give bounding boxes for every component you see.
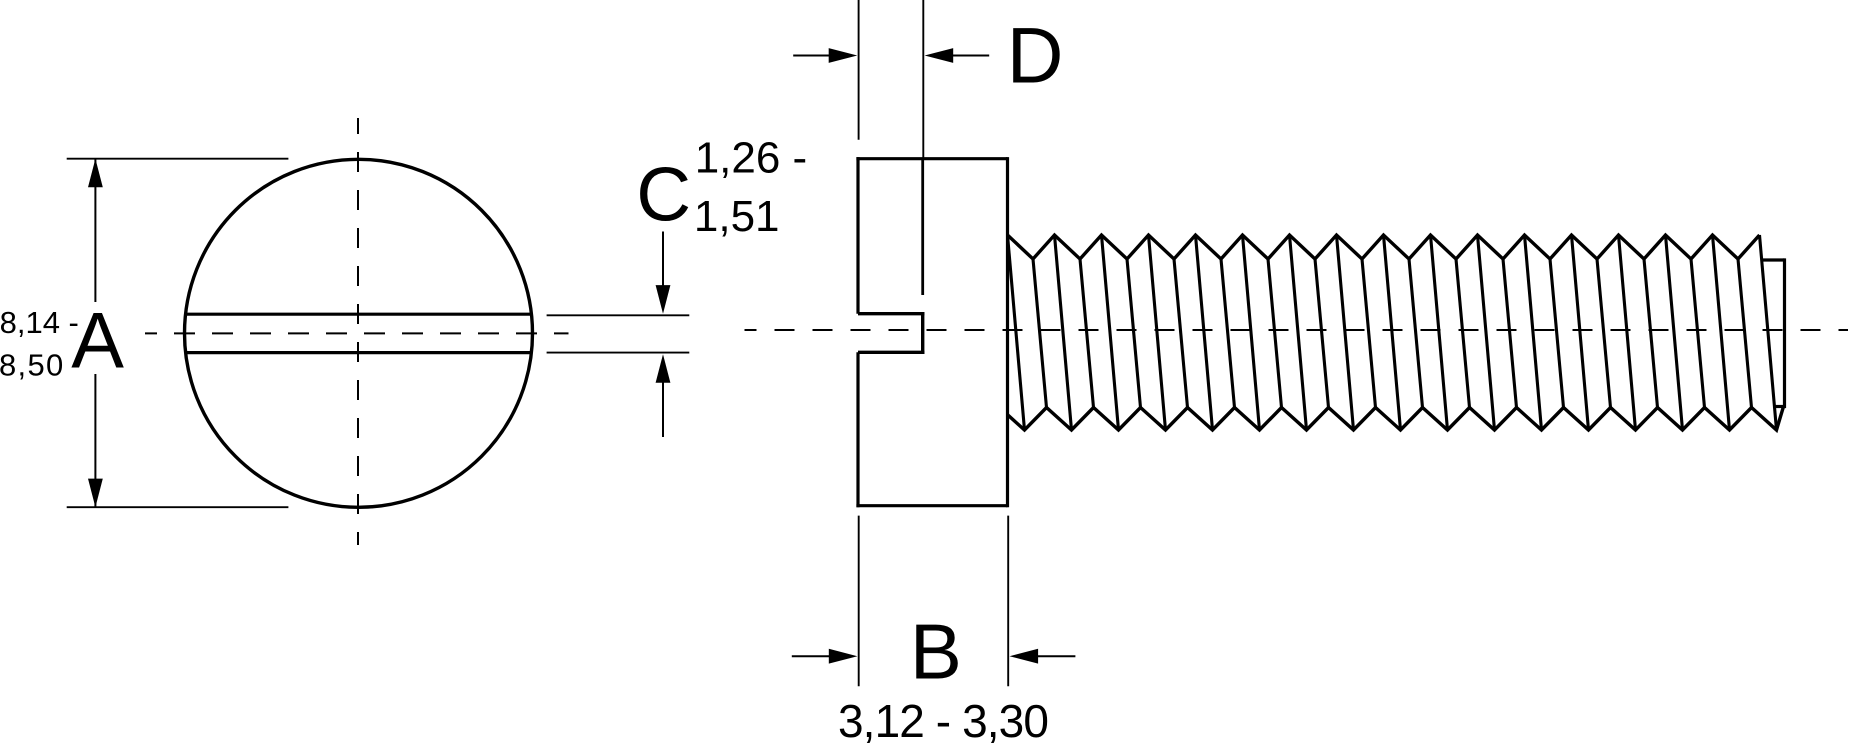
dimension C upper arrowhead pointing down	[656, 285, 671, 314]
dimension A bottom extension line	[67, 506, 289, 508]
shaft horizontal centerline	[745, 329, 1849, 331]
thread flank line from top valley 7	[1315, 259, 1329, 408]
thread flank line from top crest 8	[1337, 235, 1354, 430]
thread flank line from top crest 9	[1384, 235, 1401, 430]
thread flank line from top crest 14	[1619, 235, 1636, 430]
thread crest top profile zigzag	[1008, 235, 1760, 259]
slot lower edge line (front view)	[186, 351, 532, 354]
thread flank line from top crest 6	[1243, 235, 1260, 430]
head front view outline circle	[185, 159, 533, 507]
svg-text:A: A	[71, 296, 124, 385]
dimension B right arrowhead pointing left	[1010, 649, 1039, 664]
dimension D left arrow line	[793, 55, 830, 57]
thread flank line from top crest 7	[1290, 235, 1307, 430]
thread flank line from top valley 8	[1362, 259, 1376, 408]
svg-text:8,14 -: 8,14 -	[0, 305, 79, 340]
head side view right edge	[1006, 157, 1009, 507]
thread flank line from top valley 13	[1597, 259, 1611, 408]
dimension A dimension line upper segment	[94, 159, 96, 302]
svg-text:B: B	[910, 608, 962, 696]
thread flank line from top crest 3	[1102, 235, 1119, 430]
svg-text:8,50: 8,50	[0, 348, 65, 383]
head side view left edge upper segment	[856, 157, 859, 314]
thread flank line from top valley 3	[1127, 259, 1141, 408]
thread flank line from top valley 16	[1738, 259, 1752, 408]
horizontal centerline of head front view	[145, 332, 569, 334]
thread flank line from top valley 5	[1221, 259, 1235, 408]
dimension B left arrow line	[792, 655, 830, 657]
slot upper edge line (front view)	[186, 313, 532, 316]
unthreaded end cap bottom edge	[1775, 405, 1785, 408]
svg-text:1,51: 1,51	[694, 192, 780, 241]
slot notch bottom edge (side view)	[858, 351, 924, 354]
slot lower extension line for dimension C	[547, 352, 690, 354]
thread flank line from top crest 13	[1572, 235, 1589, 430]
thread flank line from top valley 15	[1691, 259, 1705, 408]
dimension D left extension line	[858, 0, 860, 140]
slot upper extension line for dimension C	[547, 314, 690, 316]
dimension C lower dimension line	[662, 360, 664, 437]
svg-text:1,26 -: 1,26 -	[695, 133, 808, 182]
thread flank line from top valley 11	[1503, 259, 1517, 408]
slot notch inner edge (side view)	[921, 312, 924, 354]
svg-text:C: C	[636, 152, 691, 237]
dimension A upper arrowhead	[88, 159, 103, 188]
dimension D right extension line	[922, 0, 924, 158]
thread flank line from top crest 17	[1760, 235, 1777, 430]
thread flank line from top valley 10	[1456, 259, 1470, 408]
thread flank line from top crest 5	[1196, 235, 1213, 430]
thread flank line from top crest 2	[1055, 235, 1072, 430]
thread flank line from top crest 15	[1666, 235, 1683, 430]
thread flank line from top valley 1	[1033, 259, 1047, 408]
dimension B right extension line	[1007, 516, 1009, 687]
svg-text:3,12 - 3,30: 3,12 - 3,30	[838, 695, 1048, 744]
slot notch top edge (side view)	[858, 312, 924, 315]
dimension D right arrow line	[952, 55, 989, 57]
head side view top edge	[856, 157, 1007, 160]
dimension B left arrowhead pointing right	[829, 649, 858, 664]
dimension A lower arrowhead	[88, 479, 103, 508]
head side view left edge lower segment	[856, 352, 859, 507]
thread flank line from top crest 11	[1478, 235, 1495, 430]
slot bottom visible line inside head side view	[921, 159, 924, 295]
thread crest bottom profile zigzag	[1008, 407, 1784, 431]
head side view bottom edge	[856, 504, 1007, 507]
thread flank line from top crest 1	[1008, 235, 1025, 430]
unthreaded end cap right face	[1783, 258, 1786, 408]
vertical centerline of head front view	[357, 118, 359, 545]
dimension C lower arrowhead pointing up	[656, 354, 671, 383]
thread flank line from top crest 10	[1431, 235, 1448, 430]
thread flank line from top valley 2	[1080, 259, 1094, 408]
thread flank line from top valley 9	[1409, 259, 1423, 408]
thread flank line from top crest 16	[1713, 235, 1730, 430]
thread flank line from top valley 6	[1268, 259, 1282, 408]
dimension A dimension line lower segment	[94, 374, 96, 507]
thread flank line from top valley 14	[1644, 259, 1658, 408]
thread flank line from top crest 12	[1525, 235, 1542, 430]
unthreaded end cap top edge	[1762, 258, 1785, 261]
dimension B right arrow line	[1037, 655, 1075, 657]
dimension C upper dimension line	[662, 232, 664, 309]
dimension A top extension line	[67, 158, 289, 160]
dimension D left arrowhead pointing right	[829, 48, 858, 63]
thread flank line from top crest 4	[1149, 235, 1166, 430]
thread flank line from top valley 4	[1174, 259, 1188, 408]
dimension B left extension line	[858, 516, 860, 687]
dimension D right arrowhead pointing left	[925, 48, 954, 63]
thread flank line from top valley 12	[1550, 259, 1564, 408]
svg-text:D: D	[1007, 12, 1064, 100]
